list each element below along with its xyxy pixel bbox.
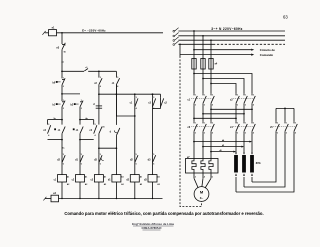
svg-text:3: 3 bbox=[117, 77, 118, 79]
power fuse e4-3 bbox=[209, 59, 213, 70]
supply line S bbox=[178, 35, 285, 37]
winding 2 bottom lead with arrow bbox=[243, 177, 245, 187]
svg-text:2: 2 bbox=[63, 108, 64, 110]
svg-text:3: 3 bbox=[95, 124, 96, 126]
control supply terminal tick bbox=[42, 31, 45, 35]
svg-text:CREA 87865-D: CREA 87865-D bbox=[142, 226, 162, 230]
wire coil d2 to bottom rail bbox=[134, 182, 136, 199]
timer no contact d on rung4 bbox=[116, 128, 119, 136]
node control feed phase bbox=[193, 49, 195, 51]
node sub-bus rung4 bbox=[116, 93, 118, 95]
contactor c5 pole 3 bbox=[293, 122, 295, 124]
node group B top bbox=[79, 119, 81, 121]
svg-text:1: 1 bbox=[81, 100, 82, 102]
nc pushbutton b1 on rung1 bbox=[62, 101, 65, 103]
contactor c4 linkage bbox=[233, 125, 254, 127]
node tap d4 bbox=[193, 141, 195, 143]
svg-text:3: 3 bbox=[212, 95, 213, 97]
contactor c3 linkage bbox=[191, 125, 213, 127]
reversal crossover wire 2 bbox=[203, 79, 244, 94]
group A bottom bridge wire bbox=[48, 139, 63, 141]
wire fuse2 to contactor c1 bbox=[202, 69, 204, 94]
node tap L2 bbox=[202, 35, 204, 37]
no contact c1 on rung5 bbox=[134, 94, 136, 98]
motor lead u bbox=[193, 173, 195, 178]
contactor c2 linkage bbox=[233, 98, 254, 100]
sub-bus wire rung3 to rung6 bbox=[99, 93, 161, 95]
coil d1 bbox=[112, 175, 121, 182]
group B bottom bridge wire bbox=[80, 139, 94, 141]
wire rung5 mid bbox=[134, 107, 136, 155]
fuse e2 on bottom rail bbox=[51, 195, 59, 202]
rung6 pair bottom bridge bbox=[153, 108, 161, 110]
reversal crossover wire 3 bbox=[211, 84, 236, 94]
wire rung6 lower bbox=[152, 109, 154, 155]
control feed phase arrow wire bbox=[194, 49, 251, 51]
svg-text:1: 1 bbox=[204, 95, 205, 97]
coil d3 bbox=[148, 175, 157, 182]
svg-text:A2: A2 bbox=[121, 183, 123, 186]
svg-text:96: 96 bbox=[64, 52, 66, 54]
svg-text:5: 5 bbox=[237, 95, 238, 97]
contactor c4 pole 1 bbox=[235, 122, 237, 124]
svg-text:3: 3 bbox=[48, 124, 49, 126]
wire coil d3 to bottom rail bbox=[152, 182, 154, 199]
svg-text:A1: A1 bbox=[67, 175, 69, 178]
timer element d on rung3 bbox=[98, 94, 100, 124]
coil c1 bbox=[58, 175, 67, 182]
svg-text:2: 2 bbox=[204, 133, 205, 135]
svg-text:Circuito de: Circuito de bbox=[260, 48, 275, 52]
supply line R entry symbol bbox=[173, 30, 175, 32]
no contact c1 on seal-in branch bbox=[84, 69, 88, 72]
node rung1 branch bbox=[61, 70, 63, 72]
svg-text:d1: d1 bbox=[102, 126, 104, 128]
no contact d1 on rung3 bbox=[99, 127, 102, 134]
timer contact d2 on rung1 bbox=[61, 154, 63, 156]
node tap d5 bbox=[202, 146, 204, 148]
wire coil d1 to bottom rail bbox=[115, 182, 117, 199]
svg-text:Comando: Comando bbox=[260, 53, 274, 57]
wire coil c2 to bottom rail bbox=[79, 182, 81, 199]
node group A top bbox=[61, 119, 63, 121]
bridge wire rung3 to rung4 bbox=[99, 147, 117, 149]
node rung6 pair left bbox=[152, 93, 154, 95]
autotransformer tap wire d5 bbox=[203, 146, 243, 148]
output bus wire u bbox=[194, 117, 236, 119]
svg-text:3: 3 bbox=[295, 123, 296, 125]
svg-text:3: 3 bbox=[212, 123, 213, 125]
rung6 pair right no contact c2 bbox=[160, 94, 162, 98]
contactor c5 pole 1 bbox=[275, 122, 277, 124]
node reversal feed 3 bbox=[210, 83, 212, 85]
node reversal feed 1 bbox=[193, 73, 195, 75]
group B right branch no contact c2 bbox=[93, 120, 95, 125]
coil c2 bbox=[76, 175, 85, 182]
control bottom rail bbox=[59, 198, 163, 200]
group A left branch no contact c2 bbox=[47, 120, 49, 125]
autotransformer winding 1 bbox=[234, 155, 238, 173]
svg-text:5: 5 bbox=[63, 154, 64, 156]
supply line T bbox=[178, 39, 285, 41]
svg-text:A1: A1 bbox=[140, 175, 142, 178]
svg-text:2: 2 bbox=[63, 86, 64, 88]
svg-text:63: 63 bbox=[283, 14, 288, 19]
no contact c1 top of rung4 bbox=[115, 71, 117, 77]
node control feed neutral bbox=[179, 43, 181, 45]
wires contactor row1 to row2 bbox=[193, 105, 195, 121]
svg-text:5: 5 bbox=[100, 154, 101, 156]
wire rung1 to branch node bbox=[61, 50, 63, 79]
svg-text:A2: A2 bbox=[157, 183, 159, 186]
wire fuse1 to contactor c1 bbox=[193, 69, 195, 94]
svg-text:95: 95 bbox=[64, 44, 66, 46]
svg-text:5: 5 bbox=[153, 154, 154, 156]
wire bottom rail left bbox=[45, 198, 51, 200]
supply line N entry symbol bbox=[173, 44, 175, 46]
node group B bottom bbox=[79, 139, 81, 141]
svg-text:2: 2 bbox=[195, 177, 196, 179]
winding 3 bottom lead with arrow bbox=[251, 177, 253, 182]
contactor c5 pole 2 bbox=[284, 122, 286, 124]
node group A bottom bbox=[61, 139, 63, 141]
contactor c1 pole 1 bbox=[193, 94, 195, 96]
svg-text:3~+ N 220V~60Hz: 3~+ N 220V~60Hz bbox=[211, 27, 242, 31]
svg-text:1: 1 bbox=[204, 123, 205, 125]
coil d2 bbox=[130, 175, 139, 182]
rung6 pair left no contact c3 bbox=[152, 94, 154, 98]
node sub-bus rung6 bbox=[152, 93, 154, 95]
overload heater element 3 bbox=[209, 159, 213, 174]
neutral dashed drop wire to motor bbox=[179, 44, 181, 56]
wire L1 drop to fuse bbox=[193, 31, 195, 59]
svg-text:A2: A2 bbox=[140, 183, 142, 186]
output bus wire v bbox=[203, 113, 244, 115]
svg-text:3: 3 bbox=[253, 123, 254, 125]
group B top bridge wire bbox=[80, 119, 94, 121]
contactor c3 pole 3 bbox=[210, 122, 212, 124]
overload heater element 1 bbox=[192, 159, 196, 174]
svg-text:2: 2 bbox=[245, 105, 246, 107]
wire rung1 upper bbox=[61, 33, 63, 44]
svg-text:1: 1 bbox=[195, 123, 196, 125]
svg-text:5: 5 bbox=[81, 154, 82, 156]
contactor c1 linkage bbox=[191, 98, 213, 100]
svg-text:2: 2 bbox=[195, 133, 196, 135]
wire L2 drop to fuse bbox=[202, 36, 204, 59]
svg-text:6: 6 bbox=[153, 164, 154, 166]
svg-text:1: 1 bbox=[245, 95, 246, 97]
coil c3 bbox=[94, 175, 103, 182]
wire rung3 lower bbox=[98, 134, 100, 155]
contactor c3 pole 1 bbox=[193, 122, 195, 124]
motor lead w bbox=[210, 173, 212, 178]
contactor c1 pole 3 bbox=[210, 94, 212, 96]
contactor c2 pole 3 bbox=[251, 94, 253, 96]
node tap d6 bbox=[210, 151, 212, 153]
svg-text:2: 2 bbox=[204, 105, 205, 107]
star loop wire middle bbox=[244, 133, 285, 187]
group A top bridge wire bbox=[48, 119, 63, 121]
node tap L1 bbox=[193, 30, 195, 32]
wire rung1 to sub-bus bbox=[61, 85, 63, 101]
svg-text:3~: 3~ bbox=[200, 196, 204, 200]
wire c3 pole2 to overload bbox=[202, 133, 204, 158]
wire rung1 to parallel group A bbox=[61, 107, 63, 125]
node reversal feed 2 bbox=[202, 78, 204, 80]
svg-text:1: 1 bbox=[63, 100, 64, 102]
wire coil c3 to bottom rail bbox=[98, 182, 100, 199]
autotransformer winding 2 bbox=[242, 155, 246, 173]
output bus wire w bbox=[211, 108, 252, 110]
star loop wire outer bbox=[236, 133, 294, 192]
svg-text:6: 6 bbox=[63, 164, 64, 166]
star loop wire inner bbox=[252, 133, 276, 182]
wire c4 pole3 to winding 3 bbox=[251, 133, 253, 152]
wire rung4 lower bbox=[115, 136, 117, 175]
reversal crossover wire 1 bbox=[194, 74, 252, 94]
svg-text:6: 6 bbox=[81, 164, 82, 166]
supply line T entry symbol bbox=[173, 40, 175, 42]
motor lead v bbox=[202, 173, 204, 178]
svg-text:1: 1 bbox=[195, 95, 196, 97]
svg-text:6: 6 bbox=[237, 105, 238, 107]
node rung4-rung5 tie bbox=[134, 115, 136, 117]
nc pushbutton b0 on rung1 bbox=[62, 78, 65, 80]
contactor c4 pole 2 bbox=[243, 122, 245, 124]
wire control top rail bbox=[57, 32, 164, 34]
wire c4 pole1 to winding 1 bbox=[235, 133, 237, 152]
wire c3 pole3 to overload bbox=[210, 133, 212, 158]
wire fuse3 to contactor c1 bbox=[210, 69, 212, 94]
svg-text:3: 3 bbox=[136, 97, 137, 99]
autotransformer tap wire d6 bbox=[211, 151, 235, 153]
group A right branch no contact c1 bbox=[62, 127, 65, 134]
svg-text:5: 5 bbox=[136, 154, 137, 156]
wire L3 drop to fuse bbox=[210, 40, 212, 58]
node control rail / rung1 bbox=[61, 32, 63, 34]
sub-bus wire rung1 to rung2 bbox=[62, 93, 80, 95]
wire rung2 to parallel group B bbox=[79, 107, 81, 125]
overload heater element 2 bbox=[201, 159, 205, 174]
node seal-in branch / rung3 bbox=[98, 70, 100, 72]
contactor c5 linkage bbox=[273, 125, 296, 127]
power fuse e4-2 bbox=[201, 59, 205, 70]
contact d2 on rung5 bbox=[134, 154, 136, 156]
svg-text:2: 2 bbox=[245, 133, 246, 135]
nc pushbutton b2 on rung2 bbox=[80, 101, 83, 103]
wire rung2 lower bbox=[79, 134, 81, 155]
svg-text:6: 6 bbox=[100, 164, 101, 166]
timer contact d1 on rung2 bbox=[79, 154, 81, 156]
wire coil c1 to bottom rail bbox=[61, 182, 63, 199]
wire c4 pole2 to winding 2 bbox=[243, 133, 245, 152]
group B left branch no contact c1 bbox=[80, 127, 83, 134]
supply line N solid part bbox=[178, 43, 213, 45]
contactor c1 pole 2 bbox=[202, 94, 204, 96]
svg-text:2: 2 bbox=[81, 108, 82, 110]
contactor c2 pole 1 bbox=[235, 94, 237, 96]
wire bridge to c5 poles bbox=[275, 108, 277, 121]
rung4 cross wire to rung5 bbox=[116, 115, 134, 117]
contactor c5 bridge wire bbox=[276, 107, 294, 109]
fuse e1 bbox=[49, 30, 57, 36]
control return terminal tick bbox=[43, 197, 46, 201]
autotransformer winding 3 bbox=[250, 155, 254, 173]
contactor c3 pole 2 bbox=[202, 122, 204, 124]
wire rung1 lower bbox=[61, 134, 63, 155]
contact d3 on rung6 bbox=[152, 154, 154, 156]
wire control supply to fuse e1 bbox=[45, 32, 49, 34]
svg-text:2: 2 bbox=[286, 133, 287, 135]
no contact c2 top of rung3 bbox=[98, 71, 100, 77]
contactor c4 pole 3 bbox=[251, 122, 253, 124]
svg-text:1: 1 bbox=[286, 123, 287, 125]
svg-text:5: 5 bbox=[277, 123, 278, 125]
svg-text:1: 1 bbox=[63, 78, 64, 80]
svg-text:3: 3 bbox=[100, 77, 101, 79]
wire seal-in branch horizontal bbox=[62, 70, 84, 72]
svg-text:1: 1 bbox=[245, 123, 246, 125]
svg-text:A1: A1 bbox=[85, 175, 87, 178]
power fuse e4-1 bbox=[192, 59, 196, 70]
group B actuator link bbox=[73, 128, 75, 130]
group A actuator link bbox=[54, 128, 56, 130]
svg-text:A1: A1 bbox=[157, 175, 159, 178]
contact d3 on rung3 bbox=[98, 154, 100, 156]
supply line N dashed part bbox=[213, 43, 285, 45]
node sub-bus rung5 bbox=[134, 93, 136, 95]
svg-text:6: 6 bbox=[237, 133, 238, 135]
overload relay e7 box bbox=[186, 159, 219, 174]
svg-text:A1: A1 bbox=[121, 175, 123, 178]
svg-text:A2: A2 bbox=[104, 183, 106, 186]
node tap L3 bbox=[210, 39, 212, 41]
contactor c2 pole 2 bbox=[243, 94, 245, 96]
svg-text:3: 3 bbox=[253, 95, 254, 97]
control feed neutral arrow wire bbox=[180, 54, 251, 56]
svg-text:A2: A2 bbox=[67, 183, 69, 186]
wire stubs contacts to coils bbox=[61, 162, 63, 174]
svg-text:Comando para motor elétrico tr: Comando para motor elétrico trifásico, c… bbox=[64, 211, 263, 216]
svg-text:E= ~220V~60Hz: E= ~220V~60Hz bbox=[82, 28, 106, 32]
svg-text:6: 6 bbox=[136, 164, 137, 166]
autotransformer tap wire d4 bbox=[194, 141, 251, 143]
svg-text:6: 6 bbox=[277, 133, 278, 135]
nc contact e3 on rung1 bbox=[62, 43, 65, 45]
svg-text:A2: A2 bbox=[85, 183, 87, 186]
svg-text:2: 2 bbox=[195, 105, 196, 107]
svg-text:5: 5 bbox=[237, 123, 238, 125]
supply line S entry symbol bbox=[173, 35, 175, 37]
winding 1 bottom lead with arrow bbox=[235, 177, 237, 192]
motor M 3~ bbox=[194, 187, 209, 202]
wire rung4 upper bbox=[115, 85, 117, 125]
svg-text:6: 6 bbox=[212, 177, 213, 179]
svg-text:A1: A1 bbox=[104, 175, 106, 178]
wire c3 pole1 to overload bbox=[193, 133, 195, 158]
supply line R bbox=[178, 30, 285, 32]
svg-text:3: 3 bbox=[153, 97, 154, 99]
